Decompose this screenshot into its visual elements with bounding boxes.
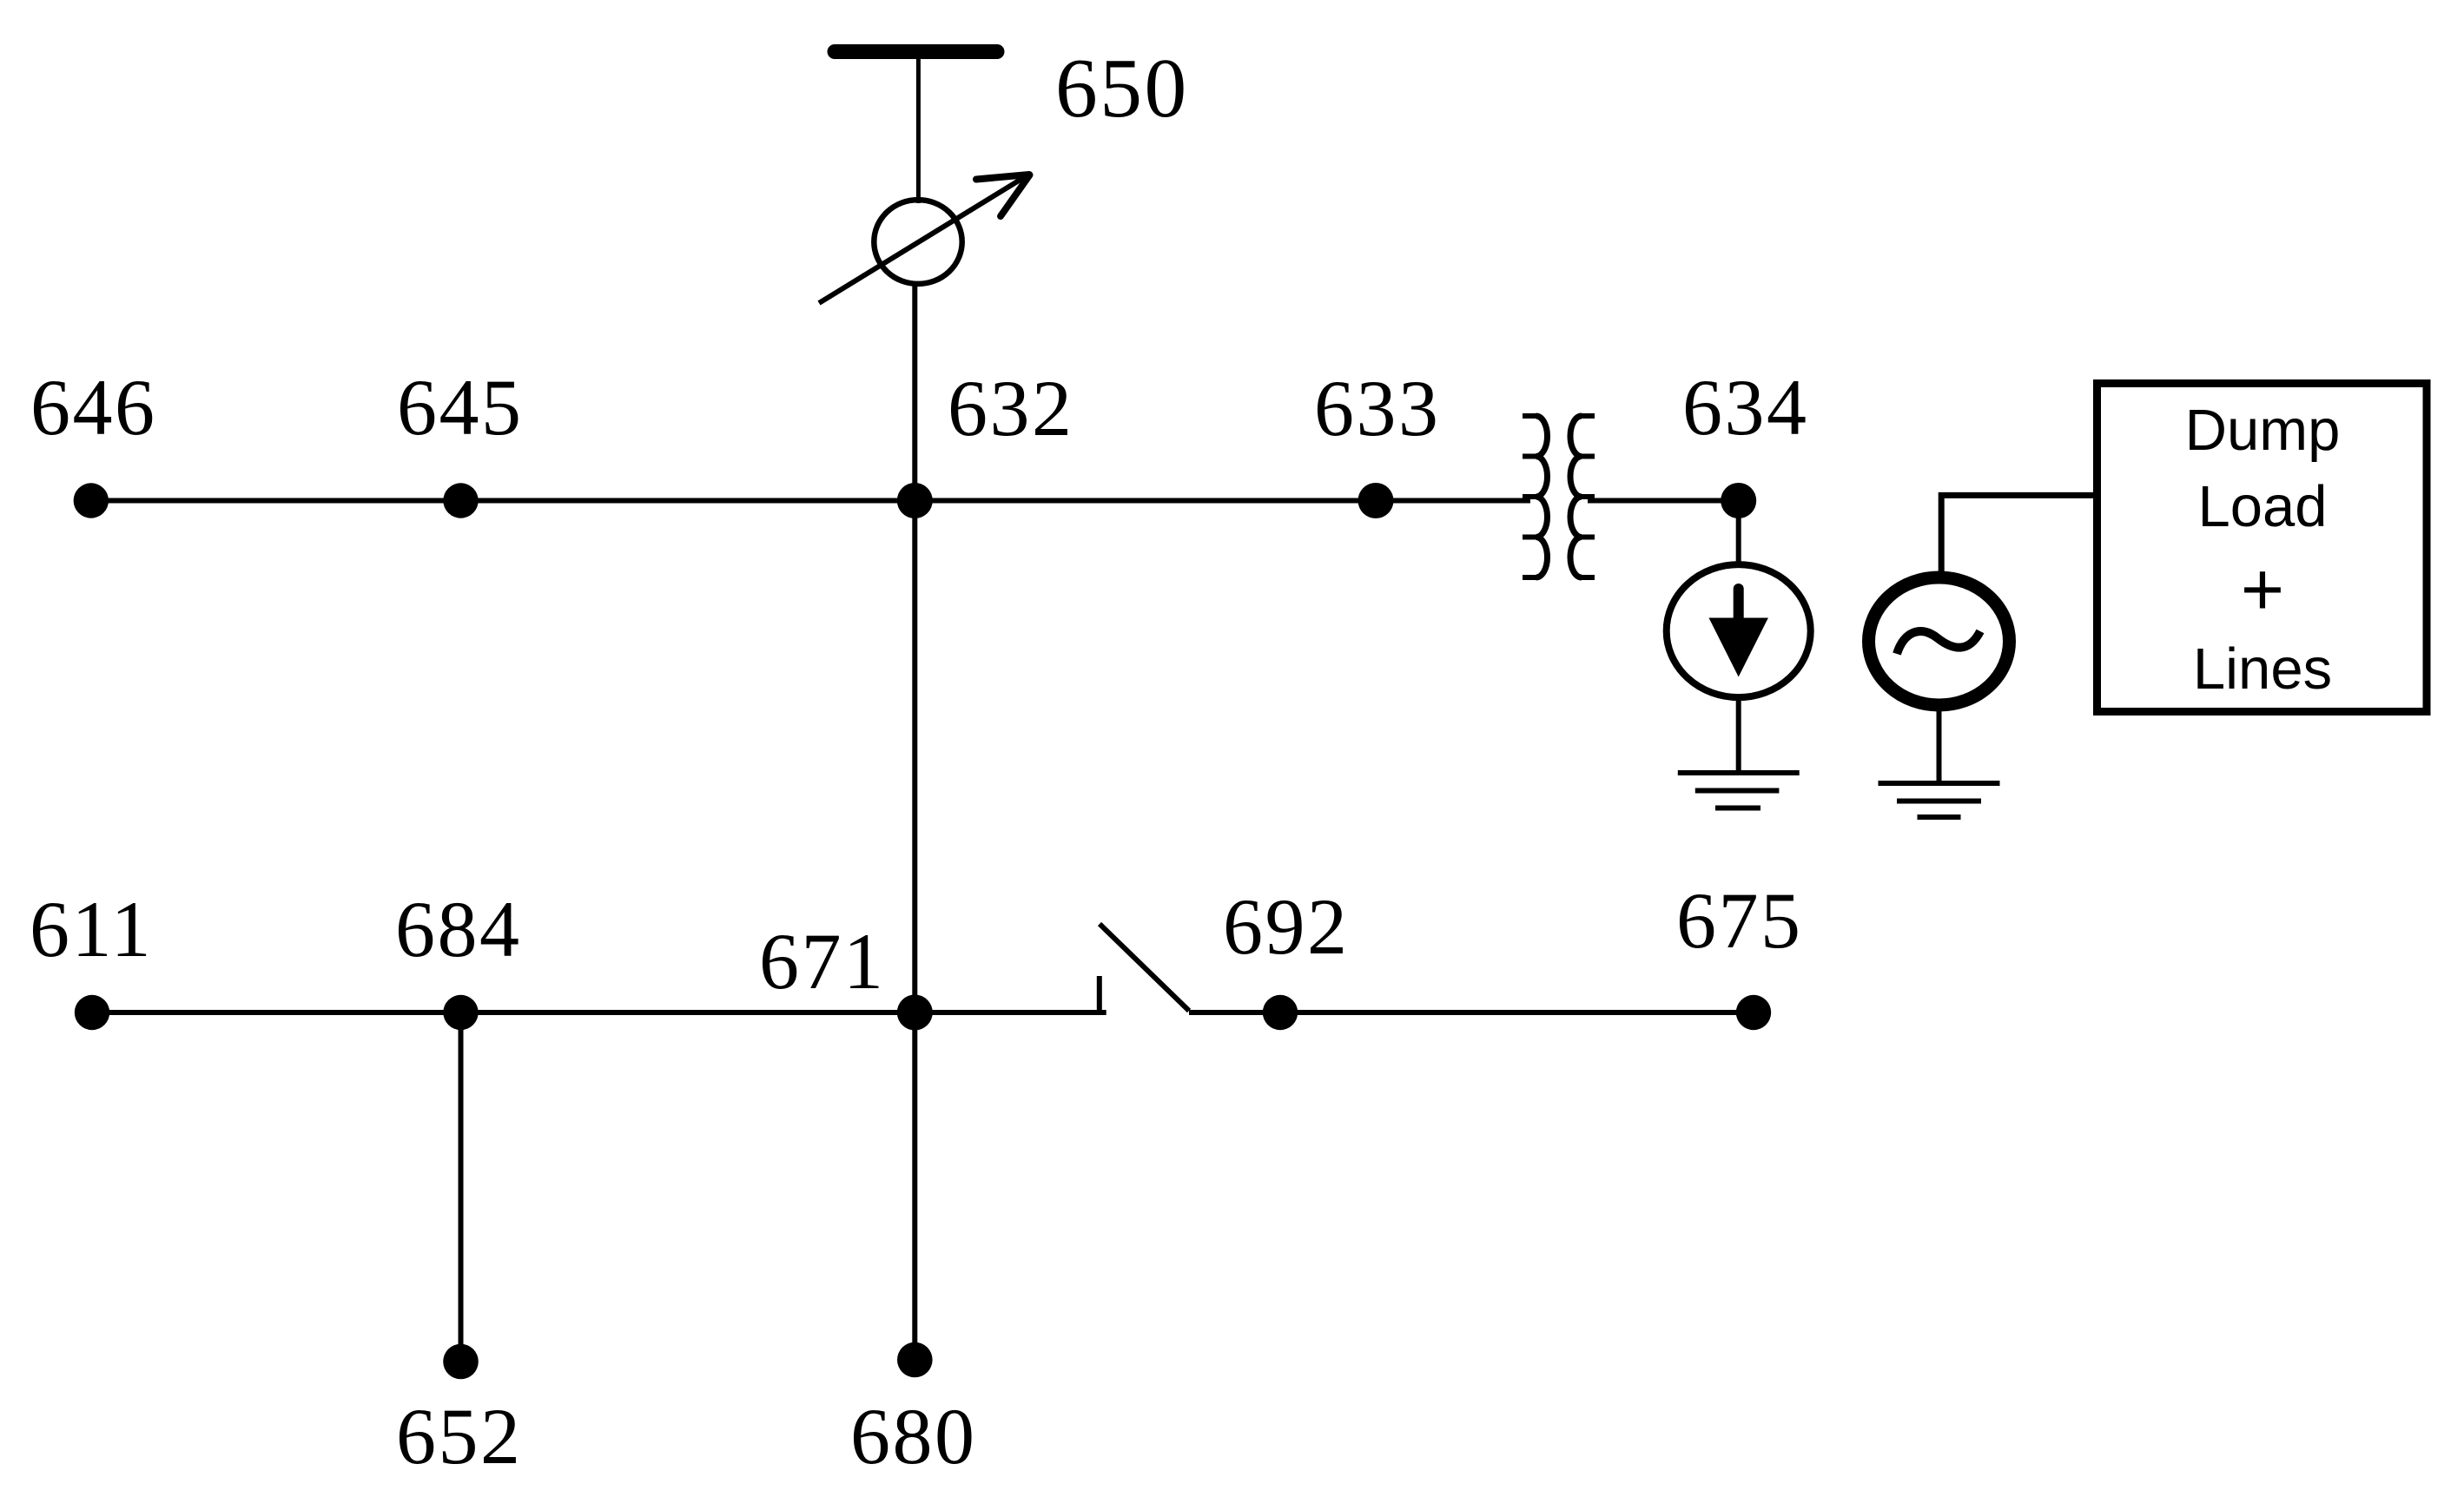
switch blade	[1100, 924, 1189, 1011]
node dot 645	[443, 483, 478, 518]
switch tick	[1097, 976, 1102, 1012]
wire 632 to 671 trunk	[912, 501, 917, 1013]
wire switch to 675	[1189, 1010, 1754, 1015]
svg-text:633: 633	[1314, 364, 1441, 452]
bus 650 source bar	[835, 44, 997, 59]
node dot 652	[443, 1344, 479, 1380]
current source arrow	[1709, 589, 1768, 677]
wire current source to ground	[1736, 696, 1741, 773]
wire 634 to current source	[1736, 501, 1741, 567]
svg-text:675: 675	[1676, 876, 1803, 965]
AC source circle	[1869, 577, 2010, 705]
svg-text:634: 634	[1682, 363, 1809, 452]
svg-text:692: 692	[1223, 882, 1350, 971]
wire bus650 to regulator	[916, 57, 921, 203]
node dot 675	[1736, 995, 1771, 1030]
svg-text:Dump: Dump	[2185, 398, 2341, 463]
node dot 633	[1358, 483, 1394, 518]
node dot 671 junction	[897, 995, 933, 1031]
wire transformer to 634	[1588, 498, 1739, 504]
node dot 634	[1721, 483, 1756, 518]
node dot 684	[443, 995, 478, 1030]
dump load text	[2185, 398, 2341, 702]
svg-text:632: 632	[948, 364, 1074, 452]
svg-text:611: 611	[30, 885, 153, 973]
ground (current source)	[1678, 773, 1800, 808]
svg-text:Lines: Lines	[2193, 636, 2332, 702]
node dot 611	[75, 995, 109, 1030]
node dot 692	[1263, 995, 1298, 1030]
wire 632 to 633	[915, 498, 1376, 504]
voltage regulator circle	[874, 200, 961, 284]
node dot 680	[897, 1342, 933, 1378]
wire dump box to AC source	[1941, 495, 2095, 575]
transformer right winding	[1570, 416, 1595, 577]
svg-text:646: 646	[30, 363, 157, 452]
wire 611 to switch	[92, 1010, 1106, 1015]
wire 671 to 680	[912, 1012, 917, 1360]
svg-text:Load: Load	[2197, 474, 2327, 539]
transformer left winding	[1523, 416, 1548, 577]
current source circle	[1667, 564, 1811, 697]
dump load box	[2097, 384, 2428, 712]
svg-text:684: 684	[395, 885, 522, 973]
wire 684 to 652	[459, 1012, 464, 1362]
wire 633 to transformer	[1376, 498, 1530, 504]
wire 646 to 632	[91, 498, 915, 504]
svg-text:652: 652	[396, 1392, 523, 1481]
svg-text:680: 680	[850, 1392, 977, 1481]
node dot 632 junction	[897, 483, 933, 518]
svg-text:+: +	[2241, 548, 2284, 631]
ground (AC source)	[1879, 783, 2000, 817]
regulator arrow head	[976, 175, 1030, 216]
regulator arrow shaft	[819, 174, 1030, 303]
svg-text:671: 671	[759, 917, 886, 1006]
node dot 646	[74, 483, 109, 518]
svg-text:645: 645	[397, 363, 524, 452]
svg-text:650: 650	[1055, 42, 1189, 135]
wire AC source to ground	[1937, 705, 1942, 783]
wire regulator to node 632	[912, 281, 917, 501]
AC source sine symbol	[1897, 631, 1980, 654]
